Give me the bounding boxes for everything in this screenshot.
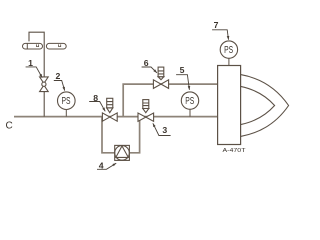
label 4 [97, 160, 116, 170]
silencer capsule right [46, 43, 66, 49]
label 7 [212, 20, 228, 40]
label 2 [54, 71, 65, 91]
tank tag A-470T [223, 148, 247, 154]
valve 3 (hand valve on main line) [138, 100, 154, 122]
label 1 [26, 58, 43, 78]
wire vent riser with bracket [29, 32, 44, 116]
pressure switch PS7 [220, 41, 237, 66]
svg-text:C: C [6, 121, 13, 132]
tank horn outer [241, 75, 289, 137]
svg-text:PS: PS [62, 96, 71, 107]
wire bypass loop left [102, 117, 115, 153]
svg-text:7: 7 [214, 20, 219, 30]
filter 4 (square with circle and triangle) [115, 145, 130, 160]
wire bypass loop right [129, 117, 139, 153]
node C label [6, 121, 13, 132]
label 6 [142, 58, 157, 73]
valve 1 (vertical globe valve) [40, 77, 49, 92]
silencer capsule left [23, 43, 43, 49]
pressure switch PS2 [58, 92, 76, 117]
wire upper branch line to tank [123, 84, 217, 117]
svg-text:5: 5 [180, 65, 185, 75]
svg-text:A-470T: A-470T [223, 148, 247, 154]
label 5 [176, 65, 189, 90]
tank horn inner [241, 86, 275, 124]
valve 8 (hand valve on main line) [102, 98, 117, 121]
svg-text:PS: PS [224, 45, 233, 56]
valve 6 (hand valve on upper line) [153, 67, 168, 88]
pressure switch PS5 [181, 92, 198, 117]
label 3 [153, 123, 171, 135]
wire main header line C [14, 116, 218, 118]
svg-text:2: 2 [55, 71, 60, 81]
svg-text:PS: PS [185, 96, 194, 107]
tank A-470T body [218, 66, 241, 145]
svg-text:3: 3 [162, 125, 167, 135]
label 8 [89, 93, 105, 111]
